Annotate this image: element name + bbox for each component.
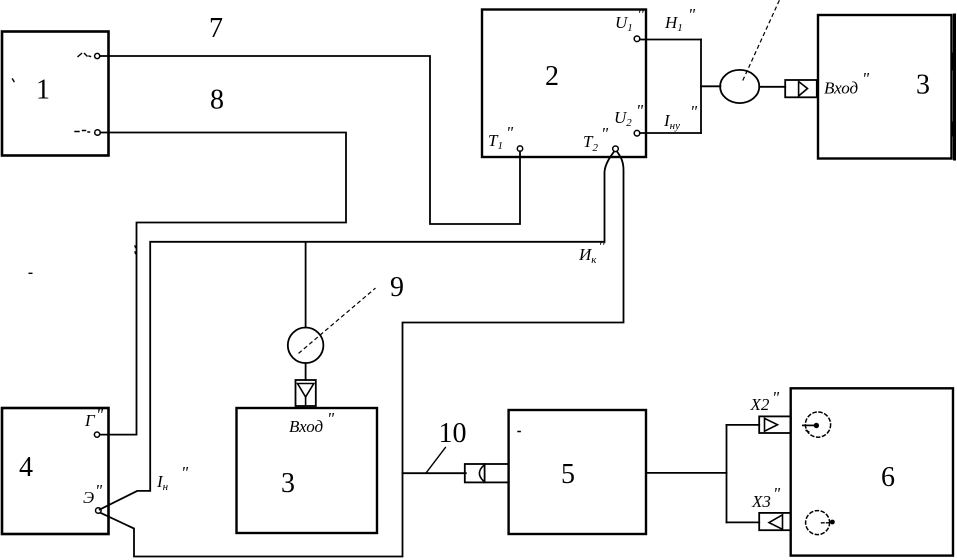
- label T1: [488, 123, 514, 152]
- svg-text:": ": [688, 5, 696, 24]
- knob pointer line top: [803, 424, 817, 426]
- svg-text:Н1: Н1: [664, 13, 683, 34]
- svg-text:10: 10: [439, 418, 467, 449]
- polarity scrawl marks pin a: [78, 54, 91, 57]
- leader line to probe (dashed): [743, 0, 780, 80]
- wire bracket to probe circle: [701, 85, 720, 87]
- svg-text:3: 3: [916, 70, 930, 101]
- label X2: [750, 388, 781, 414]
- svg-text:Iну: Iну: [663, 111, 680, 132]
- svg-text:Э: Э: [83, 488, 94, 507]
- pointer line 10: [426, 448, 445, 474]
- label X3: [751, 484, 781, 511]
- connector X2: [759, 416, 791, 433]
- svg-text:2: 2: [545, 61, 559, 92]
- knob tick top: [806, 431, 808, 432]
- terminal E: [96, 508, 102, 514]
- svg-text:": ": [637, 5, 645, 24]
- svg-text:9: 9: [390, 272, 404, 303]
- wire probe9 drop from bus: [305, 243, 307, 327]
- connector X3: [759, 513, 790, 530]
- label Vhod (bottom): [289, 409, 335, 436]
- svg-text:Г: Г: [84, 411, 96, 430]
- block 3 (bottom): [237, 408, 378, 533]
- svg-text:4: 4: [19, 452, 33, 483]
- wire U2 to bracket: [640, 132, 701, 134]
- svg-text:1: 1: [36, 75, 50, 106]
- svg-text:T1: T1: [488, 131, 503, 152]
- terminal U2: [634, 130, 640, 136]
- probe circle (current clamp): [720, 70, 759, 103]
- svg-text:6: 6: [881, 462, 895, 493]
- svg-text:": ": [96, 405, 104, 424]
- label Inu: [663, 102, 698, 132]
- svg-text:": ": [506, 123, 514, 142]
- svg-text:X2: X2: [750, 395, 770, 414]
- knob pointer dashes bottom: [822, 522, 829, 524]
- svg-text:": ": [773, 484, 781, 503]
- connector socket 10: [465, 464, 509, 482]
- svg-text:Ик: Ик: [578, 245, 597, 266]
- probe circle 9: [288, 328, 324, 364]
- terminal T1: [517, 146, 522, 151]
- svg-text:": ": [601, 124, 609, 143]
- wire 8 : block1 pin b to block4 G: [100, 133, 346, 435]
- svg-text:": ": [772, 388, 780, 407]
- label T2: [583, 124, 609, 154]
- svg-text:": ": [862, 69, 870, 88]
- terminal block1 pin b: [95, 130, 101, 136]
- knob dot bottom: [830, 520, 835, 525]
- svg-text:": ": [690, 102, 698, 121]
- terminal G: [94, 432, 99, 437]
- label Ik: [578, 237, 606, 266]
- label U1: [615, 5, 645, 34]
- svg-text:X3: X3: [751, 492, 771, 511]
- block 4: [2, 408, 109, 534]
- wire T2 pair right branch: [101, 152, 624, 557]
- wire probe9 to plug: [305, 363, 307, 380]
- wire fork to X3: [727, 521, 760, 523]
- svg-text:Iн: Iн: [156, 472, 169, 493]
- svg-text:U2: U2: [614, 108, 632, 129]
- svg-text:Вход: Вход: [824, 79, 859, 98]
- label G: [84, 405, 104, 430]
- block 6: [791, 388, 953, 555]
- label H1: [664, 5, 696, 34]
- block 1: [2, 32, 109, 156]
- svg-text:": ": [636, 101, 644, 120]
- knob circle top (dashed): [805, 412, 830, 437]
- wire 7 : block1 pin a to block2 T1: [100, 56, 520, 224]
- fork vertical: [726, 425, 728, 523]
- svg-text:7: 7: [209, 13, 223, 44]
- terminal U1: [634, 36, 640, 42]
- block 3 (top): [818, 15, 952, 159]
- connector plug at block3(bottom) input: [296, 380, 316, 406]
- label U2: [614, 101, 644, 129]
- svg-text:": ": [95, 481, 103, 500]
- wire U1 to bracket: [640, 39, 701, 41]
- label Vhod (top): [824, 69, 870, 98]
- block 5: [509, 410, 646, 534]
- wire block5 to fork: [646, 472, 727, 474]
- svg-text:U1: U1: [615, 13, 633, 34]
- scan artifact right edge: [954, 15, 955, 159]
- svg-text:": ": [598, 237, 606, 256]
- label E: [83, 481, 103, 507]
- svg-text:5: 5: [561, 459, 575, 490]
- svg-text:8: 8: [210, 85, 224, 116]
- wire 10 : node to socket: [403, 472, 466, 474]
- svg-text:": ": [181, 463, 189, 482]
- label In: [156, 463, 189, 493]
- block 2: [482, 10, 646, 158]
- svg-text:": ": [327, 409, 335, 428]
- wire probe to plug: [759, 86, 785, 88]
- knob dot top: [814, 423, 819, 428]
- terminal T2: [613, 146, 619, 152]
- svg-text:3: 3: [281, 468, 295, 499]
- knob circle bottom (dashed): [806, 511, 830, 535]
- wire bracket vertical: [700, 40, 702, 134]
- leader line to 9 (dashed): [299, 289, 375, 354]
- svg-text:Вход: Вход: [289, 417, 324, 436]
- terminal block1 pin a: [95, 53, 100, 58]
- connector plug at block3 input: [785, 80, 817, 97]
- wire fork to X2: [727, 424, 760, 426]
- polarity scrawl marks pin b: [75, 131, 90, 133]
- svg-text:T2: T2: [583, 132, 598, 154]
- wire T2 pair left branch to Ik node: [100, 152, 614, 510]
- noise specks: [13, 79, 521, 432]
